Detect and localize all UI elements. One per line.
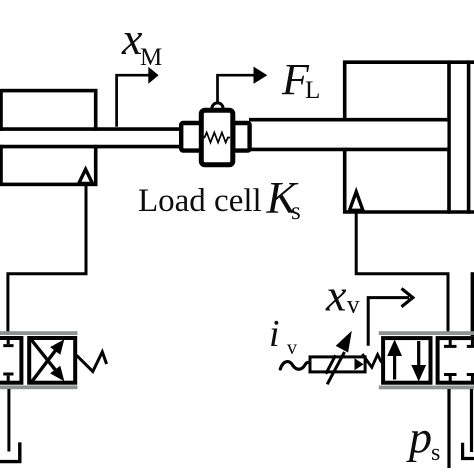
piston rod L [249,120,447,150]
valve S2 body rail top [379,331,474,335]
valve S2 arrow up [387,340,402,380]
spring S2 input [362,354,381,367]
valve S1 cross arrow up [32,339,65,382]
label x_v [325,269,360,320]
cylinder M housing [1,91,96,185]
valve S1 body rail top [0,331,78,335]
valve S1 spring [77,352,107,372]
valve S1 box crossed position [29,338,75,383]
label p_s [406,412,440,467]
svg-text:i: i [269,313,280,355]
svg-text:Load cell: Load cell [138,183,262,219]
load cell spring Ks [203,133,230,143]
valve S2 blocked port bottom right [467,375,474,383]
svg-text:p: p [406,412,432,463]
tank T1 [0,442,20,461]
cylinder L housing [343,60,474,213]
label x_M [121,13,162,71]
solenoid arrow [327,331,352,385]
svg-text:v: v [287,337,297,359]
solenoid pointer triangle [355,358,364,370]
piston rod M [0,129,180,147]
solenoid bar [326,355,336,374]
valve S1 blocked port bottom [3,374,13,383]
valve S1 body rail bottom [0,385,78,389]
svg-text:x: x [325,269,347,320]
wire cylinder L to valve S2 [356,211,448,334]
valve S2 box blocked position [438,338,474,383]
displacement x_M arrow [117,67,159,127]
wire cylinder M to valve S1 [8,182,86,334]
load cell body [201,110,233,165]
port arrow cylinder L [350,192,363,211]
svg-text:s: s [431,440,440,466]
svg-text:M: M [140,44,162,71]
load cell flange right [233,123,249,151]
wire valve S2 to tank T2 [470,389,473,452]
valve S2 blocked port bottom left [444,375,457,383]
displacement x_v arrow [368,289,413,346]
force F_L arrow [218,67,268,102]
wire to valve S2 port B [471,272,474,336]
label i_v [269,313,297,359]
valve S1 cross arrow down [32,340,65,381]
load cell top ring [212,103,223,111]
valve S1 box closed position [0,338,21,383]
load cell flange left [181,123,202,151]
solenoid box [310,357,365,372]
valve S2 blocked port top right [467,338,474,346]
valve S1 blocked port top [3,338,13,346]
tank T2 [463,443,474,459]
svg-text:s: s [291,198,301,225]
valve S2 box flow position [383,338,430,383]
valve S2 blocked port top left [444,338,457,346]
valve S2 body rail bottom [379,386,474,390]
label Load cell Ks [138,173,301,225]
piston of cylinder L [449,60,469,213]
label F_L [281,55,320,104]
svg-text:L: L [305,77,320,104]
valve S2 arrow down [411,341,426,382]
wire valve S1 to tank T1 [7,389,10,452]
wire p_s supply [447,389,450,468]
port arrow cylinder M [79,169,93,183]
signal wave i_v [280,362,309,370]
svg-text:v: v [347,292,360,319]
